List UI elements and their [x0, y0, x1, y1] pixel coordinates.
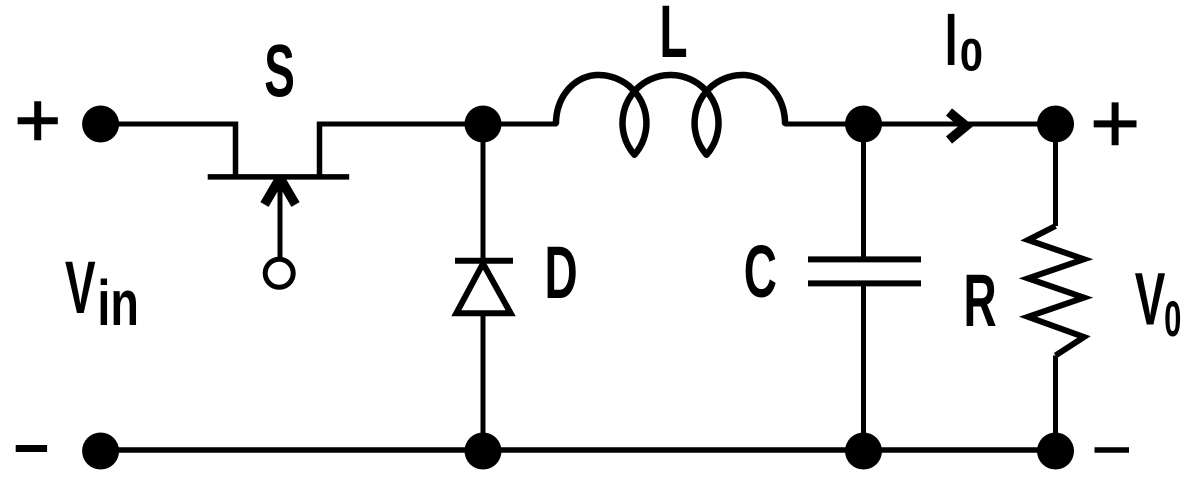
- wire diode top lead: [481, 124, 486, 259]
- resistor R zigzag: [1028, 226, 1084, 356]
- node capacitor bottom junction: [845, 433, 882, 470]
- wire top-left from input node to switch: [101, 122, 236, 127]
- node Vo+ plus sign: [1094, 102, 1137, 145]
- svg-text:R: R: [963, 260, 996, 343]
- switch gate stem: [278, 185, 283, 260]
- node input bottom terminal: [82, 433, 119, 470]
- wire bottom rail: [101, 447, 1056, 453]
- svg-text:C: C: [744, 231, 777, 314]
- node capacitor top junction: [845, 106, 882, 143]
- svg-text:L: L: [659, 0, 687, 74]
- wire capacitor top lead: [861, 124, 866, 259]
- node output top junction: [1037, 106, 1074, 143]
- node input top terminal: [82, 106, 119, 143]
- svg-text:V0: V0: [1135, 258, 1182, 346]
- svg-text:V: V: [65, 247, 96, 330]
- svg-text:S: S: [264, 30, 295, 113]
- diode D triangle: [456, 264, 510, 314]
- inductor L coil: [556, 75, 785, 155]
- switch S channel bar: [208, 174, 350, 180]
- node diode top junction: [465, 106, 502, 143]
- wire switch right source rise: [317, 122, 323, 178]
- svg-text:0: 0: [960, 31, 983, 81]
- svg-text:D: D: [544, 232, 577, 315]
- diode D cathode bar: [455, 258, 513, 264]
- wire resistor bottom lead: [1053, 356, 1058, 451]
- wire capacitor bottom lead: [861, 283, 866, 450]
- wire capacitor node to output node with Io arrow: [864, 122, 1056, 127]
- switch gate arrowhead: [265, 178, 296, 205]
- wire switch to diode node and inductor: [320, 122, 558, 127]
- node Vin- terminal minus sign: [16, 445, 47, 452]
- node Vin+ terminal plus sign: [18, 101, 58, 140]
- capacitor C top plate: [808, 256, 921, 262]
- svg-text:in: in: [97, 267, 139, 339]
- current arrow Io: [949, 112, 966, 140]
- wire resistor top lead: [1053, 124, 1058, 226]
- node diode bottom junction: [465, 433, 502, 470]
- node Vo- minus sign: [1095, 447, 1130, 453]
- capacitor C bottom plate: [808, 280, 921, 286]
- switch gate control terminal circle: [265, 259, 293, 287]
- wire inductor to capacitor node: [785, 122, 864, 127]
- wire diode bottom lead: [481, 313, 486, 450]
- wire switch left drain drop: [233, 122, 239, 178]
- node output bottom junction: [1037, 433, 1074, 470]
- svg-text:I: I: [945, 0, 958, 82]
